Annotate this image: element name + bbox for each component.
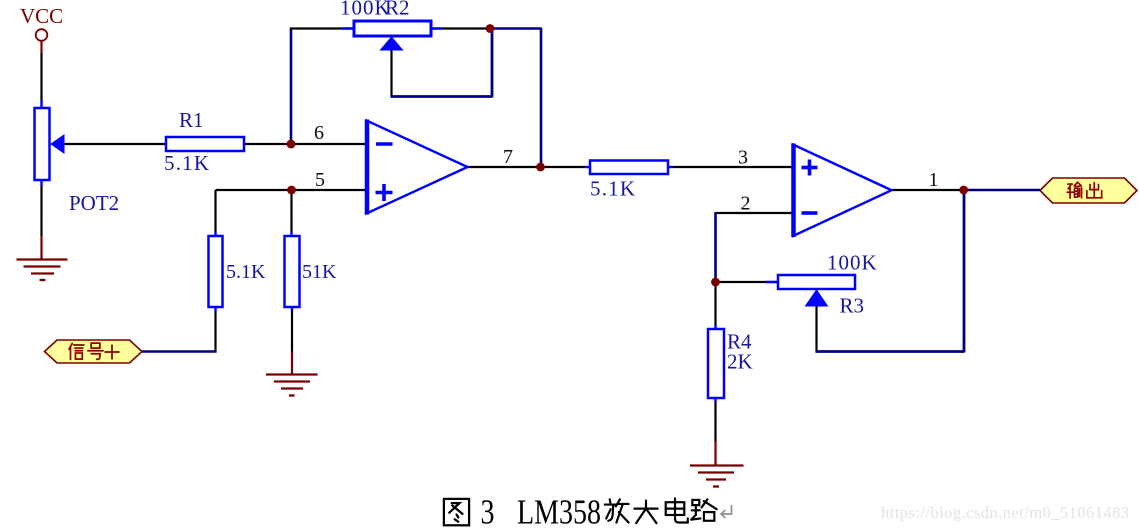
wire 5.1K vertical bottom to corner <box>214 307 216 353</box>
value 5.1K of R1 <box>164 151 210 175</box>
wire junction to output connector (navy) <box>962 189 1040 192</box>
svg-text:https://blog.csdn.net/m0_51061: https://blog.csdn.net/m0_51061483 <box>881 503 1130 522</box>
potentiometer R2 body <box>354 21 431 36</box>
svg-text:100K: 100K <box>340 0 391 20</box>
svg-text:5.1K: 5.1K <box>226 261 266 283</box>
svg-text:3: 3 <box>738 147 748 169</box>
resistor R5 body (5.1K between stages) <box>590 161 668 175</box>
resistor 51K vertical body <box>285 236 300 307</box>
connector text 信号+ glyph hao <box>88 343 103 359</box>
potentiometer R2 wiper arrow <box>381 37 403 50</box>
value 51K vertical resistor <box>302 261 337 283</box>
node junction dot at pin5 <box>287 186 296 195</box>
wire junction down to R4 <box>714 282 716 329</box>
label VCC <box>20 4 63 28</box>
wire signal connector to corner (navy) <box>142 350 217 353</box>
wire R1 to op-amp U1 pin6 <box>244 143 365 145</box>
svg-text:2: 2 <box>741 193 751 215</box>
op-amp U1 triangle <box>367 120 468 215</box>
wire feedback horizontal and vertical (navy) <box>816 190 965 353</box>
svg-text:7: 7 <box>503 146 513 168</box>
svg-text:51K: 51K <box>302 261 337 283</box>
wire R2 left lead <box>290 27 354 29</box>
wire R5 right to U2 pin3 <box>668 166 792 168</box>
wire R2 wiper loop <box>391 29 493 98</box>
wire R4 bottom to ground <box>714 398 716 466</box>
wire U1 output to resistor R5 <box>466 166 590 168</box>
wire pin5 corner down to 5.1K vertical resistor <box>214 190 216 236</box>
svg-text:LM358: LM358 <box>517 493 601 531</box>
wire U2 pin2 horizontal <box>716 212 793 214</box>
svg-text:6: 6 <box>314 122 324 144</box>
pin number 2 <box>741 193 751 215</box>
svg-text:5: 5 <box>315 169 325 191</box>
label R1 <box>179 108 204 132</box>
wire R2 junction to node7 vertical (navy) <box>489 28 541 168</box>
potentiometer POT2 wiper arrow <box>51 135 64 153</box>
label R2 <box>385 0 410 20</box>
wire R2 right lead to junction <box>431 27 489 30</box>
resistor R4 body <box>708 329 724 398</box>
ground below POT2 <box>17 260 68 281</box>
op-amp U2 triangle <box>793 144 892 238</box>
svg-text:R2: R2 <box>385 0 410 20</box>
caption glyph dian (电) <box>666 498 688 522</box>
svg-text:R3: R3 <box>840 294 865 318</box>
node junction dot output <box>959 186 968 195</box>
VCC terminal circle <box>36 29 48 41</box>
pin number 5 <box>315 169 325 191</box>
svg-text:3: 3 <box>481 493 495 531</box>
caption glyph lu (路) <box>691 499 717 520</box>
wire R3 wiper down to feedback <box>815 306 817 353</box>
caption text LM358 <box>517 493 601 531</box>
connector output hexagon <box>1040 178 1137 203</box>
wire U2 output to junction <box>890 189 962 191</box>
pin number 7 <box>503 146 513 168</box>
connector text 信号+ plus sign <box>105 345 120 360</box>
connector text 输出 glyph chu <box>1087 183 1102 198</box>
wire U1 pin5 horizontal <box>216 189 366 191</box>
wire junction to R3 left lead <box>716 281 779 283</box>
caption glyph da (大) <box>634 500 657 523</box>
wire 51K bottom to ground <box>291 307 293 375</box>
label R3 <box>840 294 865 318</box>
value 5.1K vertical resistor <box>226 261 266 283</box>
connector text 信号+ glyph xin <box>69 344 84 360</box>
wire POT2 wiper to R1 <box>63 143 166 145</box>
svg-text:1: 1 <box>929 169 939 191</box>
value 100K of R2 <box>340 0 391 20</box>
caption glyph tu (图) <box>444 499 469 525</box>
resistor R1 body <box>166 137 244 151</box>
wire node6 vertical (navy) to R2 left <box>290 28 293 146</box>
svg-text:VCC: VCC <box>20 4 63 28</box>
node junction dot R3/R4 <box>711 278 720 287</box>
caption glyph fang (放) <box>605 499 629 522</box>
svg-text:100K: 100K <box>827 251 878 275</box>
svg-text:2K: 2K <box>727 350 753 374</box>
value 2K of R4 <box>727 350 753 374</box>
resistor 5.1K vertical body <box>209 236 223 307</box>
wire POT2 bottom to ground <box>40 180 42 260</box>
value 100K of R3 <box>827 251 878 275</box>
ground below R4 <box>690 466 744 487</box>
potentiometer R3 body <box>778 275 855 289</box>
watermark <box>881 503 1130 522</box>
value 5.1K of R5 <box>590 177 636 201</box>
label R4 <box>727 330 752 354</box>
pin number 6 <box>314 122 324 144</box>
pin number 3 <box>738 147 748 169</box>
wire pin2 vertical down (navy) <box>714 212 717 282</box>
wire VCC to POT2 top <box>40 53 42 108</box>
caption number 3 <box>481 493 495 531</box>
node junction dot node7 <box>536 163 545 172</box>
caption return mark <box>721 505 732 518</box>
node junction dot at pin6 <box>287 140 296 149</box>
connector signal+ hexagon <box>45 340 143 363</box>
ground below 51K <box>266 375 318 396</box>
svg-text:POT2: POT2 <box>69 191 119 215</box>
svg-text:R1: R1 <box>179 108 204 132</box>
connector text 输出 glyph shu <box>1067 182 1081 198</box>
wire VCC stub (red) <box>40 41 42 53</box>
svg-text:5.1K: 5.1K <box>164 151 210 175</box>
svg-text:5.1K: 5.1K <box>590 177 636 201</box>
label POT2 <box>69 191 119 215</box>
wire junction5 down to 51K resistor <box>290 190 292 236</box>
pin number 1 <box>929 169 939 191</box>
potentiometer R3 wiper arrow <box>806 290 828 306</box>
node junction dot R2 right <box>486 24 495 33</box>
potentiometer POT2 body <box>35 108 50 180</box>
